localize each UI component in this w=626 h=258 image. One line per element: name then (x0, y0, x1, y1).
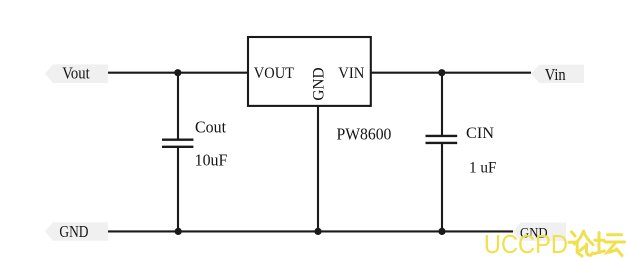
node Vout flag (45, 64, 108, 83)
wire Vout to U1 VOUT pin (108, 72, 248, 74)
wire CIN top lead (441, 73, 443, 136)
wire U1 GND pin to ground rail (317, 106, 319, 231)
svg-text:GND: GND (59, 222, 88, 241)
op-amp U1 PW8600 body (248, 37, 371, 106)
node GND right flag (513, 223, 566, 241)
node Vin flag (531, 65, 584, 83)
watermark glyph LUN (speech radical) (569, 232, 582, 256)
wire bottom ground rail (108, 230, 513, 232)
svg-text:10uF: 10uF (195, 151, 228, 170)
svg-text:VOUT: VOUT (254, 65, 294, 82)
svg-text:VIN: VIN (338, 65, 365, 82)
capacitor CIN plates (426, 135, 458, 137)
svg-text:PW8600: PW8600 (337, 124, 392, 143)
junction dot bottom left (175, 228, 182, 235)
watermark glyph LUN (ren roof and bi) (575, 231, 594, 255)
svg-text:Vout: Vout (62, 64, 90, 83)
junction dot bottom right (438, 228, 445, 235)
watermark glyph TAN (yun part) (605, 235, 625, 256)
wire Cout bottom lead (177, 147, 179, 232)
watermark glyph TAN (earth radical) (595, 233, 605, 254)
svg-text:CIN: CIN (466, 125, 494, 142)
svg-text:GND: GND (311, 67, 328, 100)
node GND left flag (45, 222, 108, 241)
wire U1 VIN pin to Vin (371, 72, 531, 74)
svg-text:UCCPD: UCCPD (484, 229, 568, 258)
svg-text:1 uF: 1 uF (469, 159, 497, 176)
capacitor Cout plates (162, 138, 193, 140)
svg-text:Vin: Vin (545, 65, 566, 84)
junction dot top left (174, 69, 181, 76)
junction dot bottom center (314, 228, 321, 235)
wire CIN bottom lead (441, 143, 443, 232)
junction dot top right (438, 69, 445, 76)
wire Cout top lead (177, 73, 179, 140)
svg-text:Cout: Cout (195, 118, 226, 137)
